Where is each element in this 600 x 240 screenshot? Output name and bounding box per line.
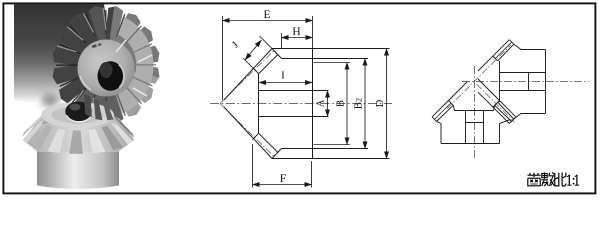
axis centerline horizontal (gear 1) <box>462 81 589 83</box>
dimension I <box>259 82 312 84</box>
bore bottom + A extension <box>259 116 329 118</box>
dimension J <box>243 36 272 67</box>
svg-text:F: F <box>280 173 286 185</box>
dimension B2 <box>364 59 366 149</box>
top gear hub <box>78 40 135 97</box>
U1 front face upper <box>499 61 501 102</box>
top gear body (clipped shading sectors) <box>25 0 190 140</box>
text 1:1 <box>567 175 579 185</box>
PHOTO: two mitre gears <box>14 0 190 189</box>
U2 right (mesh) tip line <box>500 101 516 117</box>
heel back face upper <box>272 49 282 59</box>
U2 left heel face <box>432 117 437 122</box>
U2 right root line <box>495 105 512 121</box>
stamp mark <box>92 44 97 48</box>
U2 front cone line left <box>449 82 468 101</box>
centerline (gear axis) <box>210 103 392 105</box>
gear U1 (horizontal axis) upper band tip line <box>493 40 509 56</box>
svg-text:E: E <box>263 9 270 21</box>
dark backdrop <box>14 4 108 103</box>
back face <box>312 49 314 159</box>
U1 upper band root line <box>498 44 514 61</box>
U1 upper band mid line <box>495 42 511 58</box>
U2 left band root line <box>437 105 454 121</box>
light tooth edges (left side) <box>57 8 106 119</box>
U2 top face edge <box>455 110 494 112</box>
U2 right toe face <box>495 101 500 106</box>
MIDDLE DRAWING: bevel gear section <box>210 9 392 188</box>
pitch diagonal through mesh band <box>477 84 515 122</box>
U1 lower toe face <box>493 102 498 107</box>
toe front face lower <box>253 133 259 139</box>
svg-text:H: H <box>292 26 300 38</box>
dimension F <box>253 144 312 188</box>
rim shoulder lower + B2 extension <box>282 148 369 150</box>
glyph 數 (number) <box>541 172 554 186</box>
U1 bore top <box>500 72 546 74</box>
cone flank crescent (right side, continuous) <box>117 17 153 114</box>
svg-text:B: B <box>336 100 347 107</box>
svg-text:I: I <box>281 70 285 82</box>
U1 upper chamfer <box>514 44 521 49</box>
U1 bore bottom <box>500 90 546 92</box>
svg-text:D: D <box>375 99 386 107</box>
U2 left chamfer <box>437 121 441 123</box>
U1 upper heel face <box>509 40 514 45</box>
heel back face lower <box>272 149 282 159</box>
bottom gear bore <box>65 102 91 122</box>
U1 lower heel face <box>509 119 514 124</box>
root line upper <box>259 54 279 73</box>
caption placeholder <box>0 0 1 1</box>
rim shoulder upper + B2 extension <box>282 58 369 60</box>
rim top edge + D extension <box>272 48 390 50</box>
pitch cone line lower <box>220 104 274 157</box>
U2 rim left face <box>440 124 442 144</box>
U1 upper toe face <box>493 56 498 61</box>
RIGHT DRAWING: meshed mitre gear pair <box>432 40 589 159</box>
tip / front cone line lower <box>224 107 272 159</box>
top gear bore <box>98 61 124 91</box>
dimension D <box>386 49 388 159</box>
bore top + A extension <box>259 90 329 92</box>
U2 bore inner step <box>466 122 484 124</box>
front hub face <box>258 74 260 134</box>
U1 rim bottom edge <box>521 113 546 115</box>
glyph 比 (ratio) <box>555 173 566 186</box>
toe front face upper <box>253 68 259 74</box>
U2 rim right face <box>499 124 501 144</box>
hub step upper + B extension <box>314 62 351 64</box>
hub step lower + B extension <box>314 144 351 146</box>
U2 bore left <box>465 111 467 144</box>
bottom gear teeth ring <box>22 106 134 154</box>
bottom gear cone body <box>23 104 134 152</box>
bottom gear hub cylinder <box>37 149 119 190</box>
U2 right toe-to-face link <box>494 105 495 110</box>
svg-text:A: A <box>316 99 327 107</box>
U2 front cone line right <box>478 79 500 101</box>
U1 front cone line lower <box>478 92 493 107</box>
pitch diagonal through upper band <box>447 45 511 109</box>
dimension H <box>282 33 313 48</box>
dimension A <box>327 91 329 117</box>
axis centerline vertical (gear 2) <box>474 66 476 159</box>
cone face highlight streaks <box>116 40 152 96</box>
U1 lower chamfer <box>514 114 521 120</box>
pitch cone line upper <box>220 51 274 104</box>
glyph 齒 (tooth) <box>528 173 541 186</box>
U1 lower root line <box>498 102 514 119</box>
U2 left band mid line <box>434 103 451 120</box>
U2 left toe face <box>449 101 454 106</box>
U2 bore right <box>483 111 485 144</box>
U2 right chamfer <box>500 120 511 124</box>
root line lower <box>259 133 279 153</box>
backdrop soft corner <box>40 92 62 108</box>
U2 left toe-to-face link <box>453 105 454 110</box>
tip / front cone line upper <box>224 49 272 101</box>
dimension E <box>223 16 313 100</box>
U1 front cone line upper <box>478 56 493 71</box>
svg-text:B2: B2 <box>354 98 365 109</box>
svg-text:J: J <box>230 40 241 51</box>
U1 rim top edge <box>521 49 546 51</box>
top gear lower teeth overlapping bottom gear <box>84 94 114 121</box>
caption 齒數比 1:1 <box>528 172 580 186</box>
tooth gap lines <box>56 10 156 120</box>
bottom gear top face <box>41 102 114 128</box>
U2 right heel face <box>511 117 516 122</box>
U1 back face <box>545 50 547 114</box>
U2 bottom edge <box>441 143 500 145</box>
U1 bore inner step <box>528 73 530 91</box>
gear U2 (vertical axis) left band tip line <box>432 101 448 117</box>
U1 lower (mesh) tip line <box>493 107 509 123</box>
border frame <box>3 3 595 193</box>
rim bottom edge + D extension <box>272 158 390 160</box>
dimension B <box>346 63 348 145</box>
